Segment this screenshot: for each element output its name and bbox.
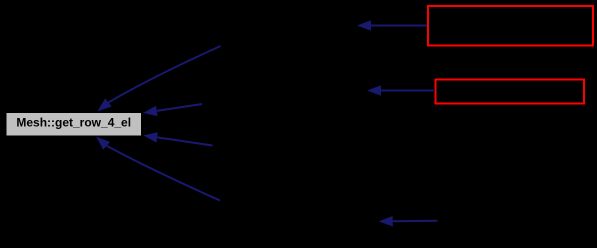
wire edge hidden node R3 to hidden node M4 (bottom) — [379, 216, 438, 227]
svg-text:Mesh::get_row_4_el: Mesh::get_row_4_el — [16, 116, 131, 130]
node R1 (red box, black text invisible) — [428, 6, 593, 46]
node R2 (red box, black text invisible) — [436, 80, 585, 104]
wire edge M1 to Mesh::get_row_4_el (upper curve) — [98, 46, 221, 111]
wire edge R1 to hidden node M1 — [357, 20, 427, 31]
wire edge M3 to Mesh::get_row_4_el (lower straight) — [143, 132, 212, 145]
wire edge R2 to hidden node M2 — [367, 85, 435, 96]
wire edge M2 to Mesh::get_row_4_el (upper straight) — [143, 104, 202, 116]
node Mesh::get_row_4_el — [6, 112, 143, 137]
wire edge M4 to Mesh::get_row_4_el (lower curve) — [96, 137, 220, 201]
